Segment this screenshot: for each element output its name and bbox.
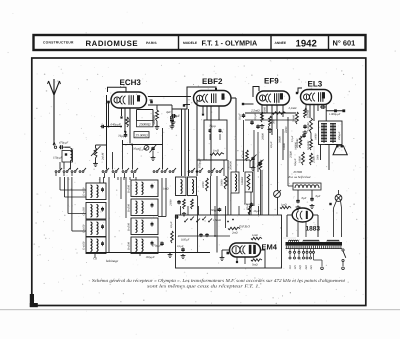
svg-text:110: 110 xyxy=(288,265,292,270)
svg-text:0,05µF: 0,05µF xyxy=(181,238,190,242)
svg-text:25000: 25000 xyxy=(313,156,316,163)
svg-text:1mΩ: 1mΩ xyxy=(252,233,258,237)
svg-text:1mΩ: 1mΩ xyxy=(213,149,220,153)
svg-text:75µµ: 75µµ xyxy=(209,124,216,128)
svg-text:100000: 100000 xyxy=(295,142,298,150)
svg-text:0,5mΩ: 0,5mΩ xyxy=(244,203,251,206)
svg-text:0,1µF: 0,1µF xyxy=(253,113,257,120)
svg-text:50000: 50000 xyxy=(202,181,205,188)
svg-text:G-s160: G-s160 xyxy=(82,187,86,196)
svg-text:0,5MΩ: 0,5MΩ xyxy=(306,110,310,118)
svg-text:25.000Ω: 25.000Ω xyxy=(135,133,148,137)
svg-text:25000: 25000 xyxy=(290,151,293,158)
svg-text:EBF2: EBF2 xyxy=(202,77,223,86)
svg-text:350µµF: 350µµF xyxy=(338,131,341,140)
svg-text:2,5mΩ: 2,5mΩ xyxy=(289,106,298,110)
svg-text:G-s160: G-s160 xyxy=(82,224,86,233)
svg-text:Schéma général du récepteur «: Schéma général du récepteur « Olympia ».… xyxy=(92,278,346,283)
svg-text:B-s500: B-s500 xyxy=(127,203,131,212)
svg-text:B-s500: B-s500 xyxy=(127,222,131,231)
svg-text:5000: 5000 xyxy=(317,154,320,160)
svg-text:MODÈLE: MODÈLE xyxy=(183,41,198,45)
svg-text:25000Ω: 25000Ω xyxy=(139,122,151,126)
svg-text:25000: 25000 xyxy=(170,199,173,206)
svg-text:10000: 10000 xyxy=(315,133,318,140)
svg-text:470µµF: 470µµF xyxy=(152,244,162,248)
svg-text:CONSTRUCTEUR: CONSTRUCTEUR xyxy=(43,41,74,45)
svg-text:50000: 50000 xyxy=(292,114,296,122)
svg-text:N° 601: N° 601 xyxy=(333,39,356,48)
svg-text:50000: 50000 xyxy=(285,126,288,133)
svg-text:2,5mΩ: 2,5mΩ xyxy=(251,109,260,113)
svg-text:50µµF: 50µµF xyxy=(294,158,297,166)
svg-text:1,5mΩ: 1,5mΩ xyxy=(213,218,221,222)
svg-text:50µµF: 50µµF xyxy=(211,208,219,212)
svg-text:bobinage: bobinage xyxy=(106,259,119,263)
svg-text:470µµF: 470µµF xyxy=(59,141,69,145)
svg-text:100000: 100000 xyxy=(241,176,244,185)
svg-text:RADIOMUSE: RADIOMUSE xyxy=(86,39,139,48)
svg-text:10000: 10000 xyxy=(299,156,302,163)
svg-text:10000: 10000 xyxy=(283,143,286,150)
svg-text:0,1µF: 0,1µF xyxy=(170,221,173,228)
svg-text:50000Ω: 50000Ω xyxy=(152,114,156,124)
svg-text:125: 125 xyxy=(293,265,297,270)
svg-text:50.000Ω: 50.000Ω xyxy=(307,141,310,150)
svg-text:PARIS: PARIS xyxy=(146,41,157,45)
svg-text:1mΩ: 1mΩ xyxy=(163,187,169,191)
svg-text:20000: 20000 xyxy=(262,133,265,140)
svg-text:5.000Ω: 5.000Ω xyxy=(306,123,310,131)
svg-text:0,1µF: 0,1µF xyxy=(238,113,242,120)
svg-text:160µµF: 160µµF xyxy=(198,158,202,168)
svg-text:47µµF: 47µµF xyxy=(242,150,245,158)
svg-text:0,1µF: 0,1µF xyxy=(270,141,273,148)
svg-text:F.T. 1 - OLYMPIA: F.T. 1 - OLYMPIA xyxy=(202,39,258,48)
svg-text:G-s160: G-s160 xyxy=(82,207,86,216)
svg-text:150µµF: 150µµF xyxy=(146,255,156,259)
svg-text:C1: C1 xyxy=(140,148,144,152)
svg-text:ECH3: ECH3 xyxy=(120,78,142,87)
svg-text:EF9: EF9 xyxy=(264,77,279,86)
svg-text:4µF: 4µF xyxy=(166,110,171,114)
svg-text:1942: 1942 xyxy=(296,38,317,49)
svg-text:0,1µF: 0,1µF xyxy=(177,245,184,248)
svg-text:2mΩ: 2mΩ xyxy=(232,231,238,235)
svg-text:Ext. ou Self-Césat: Ext. ou Self-Césat xyxy=(288,175,311,179)
svg-text:220: 220 xyxy=(298,265,302,270)
svg-text:25µF: 25µF xyxy=(254,209,260,213)
svg-text:2x0,46: 2x0,46 xyxy=(102,152,105,160)
svg-text:300000: 300000 xyxy=(229,161,233,170)
svg-text:50000: 50000 xyxy=(221,179,224,186)
svg-text:B-s500: B-s500 xyxy=(127,184,131,193)
svg-text:1mΩ: 1mΩ xyxy=(281,203,287,207)
svg-text:150µµF: 150µµF xyxy=(53,156,63,160)
svg-text:ANNÉE: ANNÉE xyxy=(275,41,287,45)
svg-text:040µµF: 040µµF xyxy=(111,123,121,127)
svg-text:sont les mêmes que ceux du réc: sont les mêmes que ceux du récepteur F.T… xyxy=(147,284,260,289)
svg-text:1.000µµF: 1.000µµF xyxy=(329,112,341,116)
svg-text:EL3: EL3 xyxy=(308,80,323,89)
svg-text:FUSIB: FUSIB xyxy=(293,170,303,174)
svg-text:5mΩ: 5mΩ xyxy=(252,263,258,267)
svg-text:30000: 30000 xyxy=(279,136,282,143)
svg-text:B-s500: B-s500 xyxy=(127,241,131,250)
svg-text:O.P.B.O: O.P.B.O xyxy=(239,225,250,229)
svg-text:G-s160: G-s160 xyxy=(82,241,86,250)
svg-text:8µF: 8µF xyxy=(302,196,307,200)
svg-text:245: 245 xyxy=(309,265,313,270)
svg-text:0,1µF: 0,1µF xyxy=(291,135,294,142)
svg-text:50: 50 xyxy=(127,118,131,122)
svg-text:240: 240 xyxy=(304,265,308,270)
svg-text:8µF: 8µF xyxy=(316,194,321,198)
